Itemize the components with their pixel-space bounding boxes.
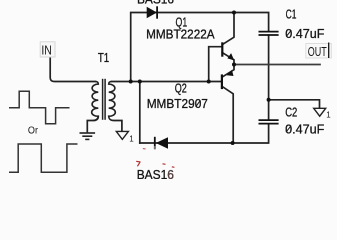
waveform annotation 2 (unipolar pulse) xyxy=(9,144,78,172)
junction node Q1 base riser xyxy=(207,80,211,84)
wire transformer secondary bottom to flag xyxy=(109,116,122,130)
transformer T1 secondary winding xyxy=(109,82,116,117)
slashed-zero strokes (schematic font style) xyxy=(196,30,292,132)
svg-text:1: 1 xyxy=(326,110,331,119)
svg-text:C1: C1 xyxy=(286,7,297,21)
part origin marker near D2 xyxy=(154,146,156,150)
wire Q1 collector xyxy=(222,13,234,45)
junction node Q2 collector on bottom rail xyxy=(231,141,235,145)
net flag V1 at transformer xyxy=(116,131,134,143)
svg-text:0.47uF: 0.47uF xyxy=(285,27,325,41)
svg-text:Q2: Q2 xyxy=(175,81,187,95)
junction node capacitor midpoint xyxy=(267,98,271,102)
label OUT (being edited, with cursor) xyxy=(306,43,332,59)
svg-text:IN: IN xyxy=(41,43,52,58)
Q2 emitter arrow xyxy=(227,70,234,76)
diode D1 BAS16 (top) xyxy=(147,6,157,18)
ground symbol xyxy=(80,133,96,139)
red tick below D2 xyxy=(143,148,146,150)
svg-text:1: 1 xyxy=(129,134,134,143)
transistor Q2 (PNP MMBT2907) bar xyxy=(222,70,234,89)
port label IN xyxy=(40,42,55,58)
svg-text:OUT: OUT xyxy=(308,44,327,59)
waveform annotation 1 (bipolar pulse) xyxy=(9,91,70,123)
red selection marks xyxy=(136,161,140,166)
wire cap midpoint to net flag xyxy=(269,100,320,108)
label BAS16 bottom (cut, selected) xyxy=(136,161,174,182)
diode D2 BAS16 (bottom) xyxy=(155,137,168,149)
svg-text:T1: T1 xyxy=(98,51,109,65)
junction node emitters / output xyxy=(232,63,236,67)
wire center from transformer to Q2 base xyxy=(112,81,222,83)
svg-text:BAS16: BAS16 xyxy=(137,168,174,179)
junction node on top rail xyxy=(232,11,236,15)
svg-text:C2: C2 xyxy=(285,105,297,119)
svg-text:BAS16: BAS16 xyxy=(137,0,174,7)
svg-text:MMBT2222A: MMBT2222A xyxy=(146,28,215,42)
wire Q2 emitter to node xyxy=(222,65,234,78)
wire output xyxy=(234,64,320,66)
wire Q1 emitter to node xyxy=(222,53,234,65)
junction node left riser xyxy=(129,80,133,84)
wire Q1 base xyxy=(209,47,222,82)
capacitor C1 plates xyxy=(259,32,279,35)
Q1 emitter arrow xyxy=(227,53,234,60)
svg-text:Or: Or xyxy=(28,125,39,137)
net flag V1 at capacitors xyxy=(314,108,332,119)
wire IN to transformer xyxy=(50,56,95,82)
capacitor C2 plates xyxy=(259,120,279,124)
wire Q2 collector xyxy=(222,86,233,143)
wire transformer primary bottom to ground xyxy=(87,116,98,131)
transformer T1 core xyxy=(103,79,106,120)
transformer T1 primary winding xyxy=(92,82,99,117)
wire top rail xyxy=(131,13,269,82)
wire vertical to bottom rail xyxy=(139,82,141,144)
wire bottom rail xyxy=(140,124,269,143)
wire C1 bottom to C2 top xyxy=(268,35,270,120)
junction node bottom riser xyxy=(138,80,142,84)
svg-text:0.47uF: 0.47uF xyxy=(285,122,325,136)
transistor Q1 (NPN MMBT2222A) bar xyxy=(222,42,234,60)
svg-text:MMBT2907: MMBT2907 xyxy=(147,97,208,111)
